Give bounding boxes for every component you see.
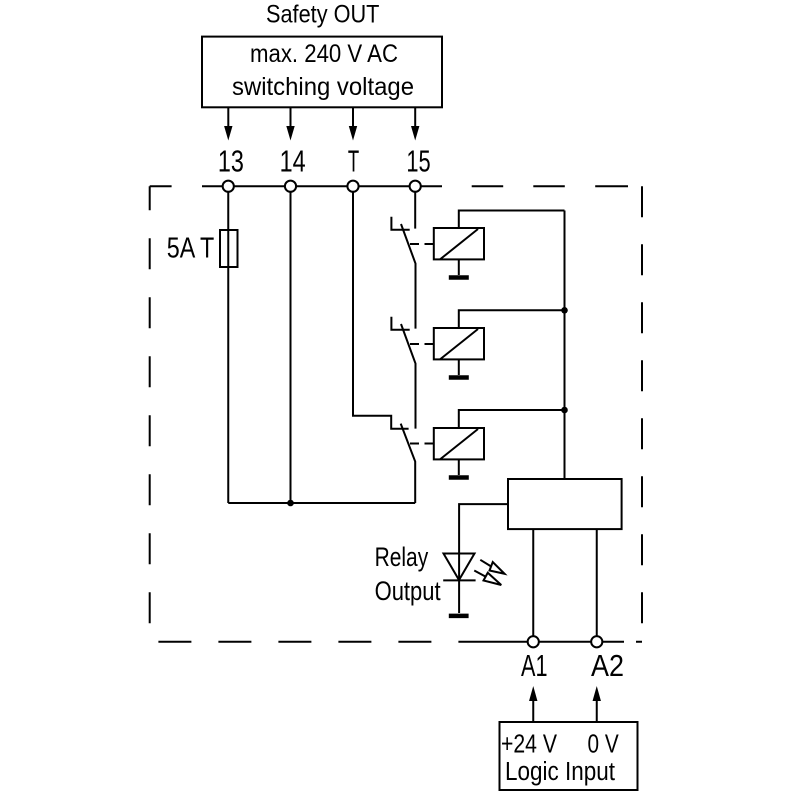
svg-text:14: 14: [280, 143, 306, 178]
wire 14 down to bottom rail: [290, 186, 292, 503]
dashed enclosure frame top edge: [150, 185, 628, 187]
svg-text:Relay: Relay: [375, 542, 429, 572]
junction bus / coil K2: [561, 307, 568, 314]
wire coil K3 top to bus: [459, 410, 565, 428]
arrow to terminal 15: [411, 107, 419, 140]
contact K2 blade: [401, 324, 416, 429]
svg-text:Safety OUT: Safety OUT: [266, 1, 379, 29]
svg-text:switching voltage: switching voltage: [232, 73, 414, 101]
svg-text:Output: Output: [375, 576, 441, 606]
wire terminal rail: [202, 185, 442, 187]
wire coil bus: [564, 211, 566, 480]
logic input box: [500, 722, 638, 790]
contact K2 coupling dashes: [410, 343, 434, 345]
svg-text:A2: A2: [591, 648, 624, 683]
contact K3 coupling dashes: [410, 443, 434, 445]
dashed enclosure frame bottom edge: [150, 641, 480, 643]
wire coil K2 bottom: [458, 359, 460, 375]
wire coil K1 top to bus: [459, 211, 565, 229]
common bar LED: [449, 614, 469, 619]
wire bottom rail A1 A2: [480, 641, 624, 643]
svg-text:max. 240 V AC: max. 240 V AC: [250, 40, 398, 68]
terminal A1: [528, 636, 539, 647]
relay coil K2: [434, 328, 484, 359]
wire bottom rail: [228, 502, 415, 504]
svg-text:+24 V: +24 V: [501, 730, 557, 758]
contact K1 coupling dashes: [410, 243, 434, 245]
svg-text:5A T: 5A T: [167, 233, 215, 265]
wire coil K2 top to bus: [459, 310, 565, 328]
wire coil K3 bottom: [458, 459, 460, 475]
arrow to terminal 13: [224, 107, 232, 140]
svg-text:15: 15: [406, 143, 430, 178]
dashed enclosure frame left edge: [149, 186, 151, 642]
wire coil K1 bottom: [458, 259, 460, 275]
LED light arrow upper: [480, 560, 504, 574]
contact K1 blade: [401, 224, 416, 329]
arrow logic to A1: [529, 686, 537, 722]
svg-text:0 V: 0 V: [588, 730, 619, 758]
contact K3 blade: [401, 424, 416, 503]
terminal 15: [410, 181, 421, 192]
control block U1: [508, 479, 622, 529]
fuse F1: [220, 230, 238, 267]
LED light arrow lower: [474, 571, 501, 586]
wire block to LED: [459, 504, 508, 613]
terminal T: [347, 181, 358, 192]
LED D1 cathode bar: [443, 579, 475, 581]
dashed enclosure frame right edge: [641, 186, 643, 642]
junction bottom rail / 14: [287, 500, 294, 507]
common bar K3: [449, 475, 469, 480]
svg-text:Logic Input: Logic Input: [505, 758, 615, 786]
relay coil K1: [434, 228, 484, 259]
wire 15 down to contact K1: [414, 186, 416, 228]
relay coil K3: [434, 428, 484, 459]
terminal 14: [285, 181, 296, 192]
contact K1 bracket: [391, 217, 409, 230]
common bar K1: [449, 275, 469, 280]
svg-text:T: T: [348, 143, 359, 178]
terminal 13: [223, 181, 234, 192]
svg-text:A1: A1: [521, 648, 548, 683]
contact K2 bracket: [391, 317, 409, 330]
common bar K2: [449, 375, 469, 380]
wire T down and jog to contact K3: [353, 186, 409, 429]
svg-text:13: 13: [218, 143, 244, 178]
wire block to A2: [596, 529, 598, 636]
terminal A2: [591, 636, 602, 647]
arrow to terminal T: [349, 107, 357, 140]
voltage info box: [202, 37, 442, 108]
LED D1 triangle: [444, 554, 475, 581]
arrow logic to A2: [593, 686, 601, 722]
small frame dash near bottom right: [636, 641, 642, 643]
arrow to terminal 14: [286, 107, 294, 140]
junction bus / coil K3: [561, 407, 568, 414]
wire 13 down through fuse to bottom rail: [227, 186, 229, 503]
wire block to A1: [532, 529, 534, 636]
